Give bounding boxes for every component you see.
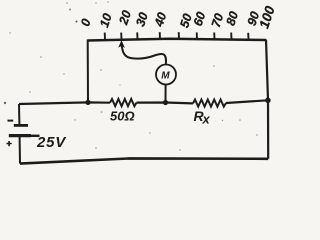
battery BT1 top plate (short, negative)	[14, 124, 28, 127]
node A junction dot	[85, 100, 90, 105]
wire: battery bottom lead down to bottom wire	[19, 137, 21, 164]
wire: middle horizontal left segment (corner to node A)	[19, 102, 110, 104]
resistor Rx zigzag	[193, 100, 226, 107]
wire: slide-wire scale bar (top)	[88, 39, 267, 41]
plus terminal sign	[7, 141, 12, 146]
svg-text:50Ω: 50Ω	[110, 109, 135, 124]
wire: flexible lead from wiper to galvanometer	[122, 46, 166, 65]
wire: left vertical (scale end 0 down to node A)	[87, 40, 89, 103]
scale tick marks	[105, 32, 249, 39]
resistor R (50 ohm) zigzag	[110, 99, 137, 106]
wire: bottom return wire	[20, 158, 268, 163]
svg-text:M: M	[161, 71, 170, 82]
svg-text:x: x	[202, 112, 211, 127]
wire: galvanometer down-lead to node B	[165, 84, 167, 102]
paper background	[0, 0, 275, 169]
battery BT1 bottom plate (long, positive)	[9, 134, 31, 137]
minus terminal sign	[8, 120, 14, 122]
wire: battery top lead (corner down to plate)	[18, 104, 20, 124]
slider arrow (wiper on slide-wire)	[119, 41, 124, 47]
svg-text:25V: 25V	[36, 134, 67, 151]
wire: middle horizontal centre segment (50ohm to Rx)	[137, 101, 194, 104]
battery lead dash toward label	[31, 135, 40, 137]
wire: middle horizontal right segment (Rx to node C)	[226, 100, 268, 103]
scan speckles (noise)	[4, 1, 258, 150]
galvanometer U1 circle	[156, 65, 176, 85]
node C junction dot	[265, 98, 271, 104]
node B junction dot	[163, 100, 168, 105]
wire: right vertical (scale end 100 down to bottom right corner)	[266, 40, 268, 159]
